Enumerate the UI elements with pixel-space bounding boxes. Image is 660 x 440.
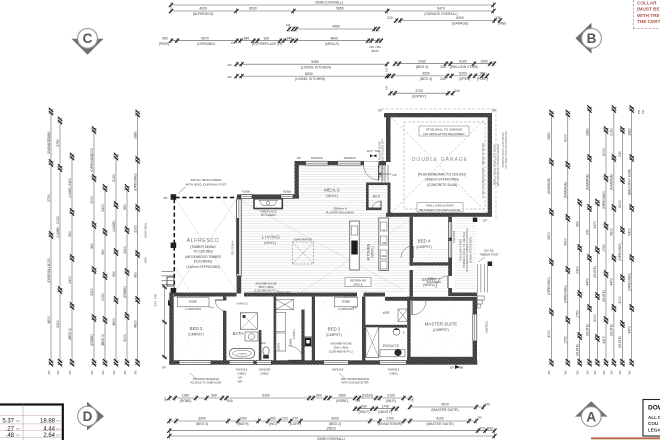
svg-text:2190: 2190 <box>387 394 395 398</box>
wall bed2-ensuite <box>362 297 365 361</box>
svg-text:DOUBLE GARAGE: DOUBLE GARAGE <box>412 157 468 163</box>
entry door opening and swing <box>448 276 452 288</box>
bed4-entry east wall <box>448 217 452 293</box>
svg-text:4800: 4800 <box>112 318 116 326</box>
svg-text:(BED 3): (BED 3) <box>101 334 105 346</box>
window SW1015 <box>229 361 254 365</box>
svg-text:5390: 5390 <box>262 394 270 398</box>
svg-text:LINEN: LINEN <box>277 343 281 351</box>
kitchen island bench <box>350 221 359 270</box>
svg-text:PLASTER BULKHEAD: PLASTER BULKHEAD <box>326 210 355 214</box>
svg-text:2-1/2DOORS: 2-1/2DOORS <box>338 307 354 311</box>
svg-text:230: 230 <box>495 16 501 20</box>
svg-text:THE CERT: THE CERT <box>637 19 660 24</box>
svg-text:(VINYL): (VINYL) <box>264 241 276 245</box>
svg-text:(ENTRY): (ENTRY) <box>412 94 426 98</box>
svg-text:(MASTER SUITE): (MASTER SUITE) <box>431 408 458 412</box>
dry door swing arc <box>289 346 304 361</box>
svg-text:4020: 4020 <box>199 7 207 11</box>
bath door opening <box>223 300 227 311</box>
svg-text:350h x 450w: 350h x 450w <box>333 346 348 350</box>
svg-text:COLLAR: COLLAR <box>637 1 657 6</box>
bottom dim row small segs <box>167 394 412 403</box>
robe bed3 box <box>178 297 210 307</box>
svg-text:SHOWER NICHE: SHOWER NICHE <box>255 281 276 285</box>
svg-text:8530: 8530 <box>249 7 257 11</box>
meals top wall <box>295 161 387 165</box>
section marker C <box>72 28 104 54</box>
wip west wall <box>366 183 369 211</box>
svg-text:960: 960 <box>68 231 72 237</box>
svg-text:240: 240 <box>618 151 622 157</box>
timber post NE <box>473 218 478 223</box>
svg-text:9130: 9130 <box>47 258 51 266</box>
svg-text:(142mm STEPDOWN): (142mm STEPDOWN) <box>186 265 219 269</box>
wall insulation note box <box>417 203 463 213</box>
svg-text:960: 960 <box>211 394 217 398</box>
svg-text:2190: 2190 <box>101 293 105 301</box>
svg-text:(1200 ABOVE F.F.L): (1200 ABOVE F.F.L) <box>254 289 278 293</box>
wall dry-bed2 <box>312 297 315 361</box>
window SW1815 left <box>306 161 329 165</box>
garage door leaf <box>378 165 380 181</box>
garage roof overhang dashed line <box>381 109 496 220</box>
svg-text:4470: 4470 <box>602 336 606 344</box>
door swing meals <box>364 165 379 180</box>
porch south wall <box>448 293 477 297</box>
svg-text:240: 240 <box>231 41 236 45</box>
svg-text:900: 900 <box>270 417 276 421</box>
master north wall <box>385 297 477 301</box>
svg-text:(OPENING): (OPENING) <box>90 154 94 172</box>
svg-text:240: 240 <box>134 370 137 375</box>
svg-text:(ROBE): (ROBE) <box>180 399 192 403</box>
svg-text:240: 240 <box>164 397 168 402</box>
svg-text:4570: 4570 <box>441 403 449 407</box>
svg-text:A/W1821: A/W1821 <box>485 321 489 334</box>
svg-text:960: 960 <box>112 271 116 277</box>
svg-text:(WC): (WC) <box>269 422 277 426</box>
svg-text:(GARAGE): (GARAGE) <box>47 138 51 155</box>
porch steps east <box>478 264 488 293</box>
svg-text:6000: 6000 <box>618 200 622 208</box>
svg-text:845: 845 <box>244 36 250 40</box>
svg-text:6470: 6470 <box>437 7 445 11</box>
bed2 door swing arc <box>345 296 357 308</box>
svg-text:BATH: BATH <box>233 331 244 336</box>
kitchen cooktop <box>351 241 357 255</box>
svg-text:240: 240 <box>386 85 389 90</box>
svg-text:(408mm STEPDOWN): (408mm STEPDOWN) <box>425 178 458 182</box>
svg-text:4470: 4470 <box>628 326 632 334</box>
svg-text:ALIGN WALL: ALIGN WALL <box>144 222 148 238</box>
svg-text:(BED 4): (BED 4) <box>416 65 428 69</box>
svg-text:1950: 1950 <box>182 394 190 398</box>
svg-text:(OPENING): (OPENING) <box>564 285 568 303</box>
svg-text:5130: 5130 <box>56 216 60 224</box>
garage top wall <box>384 113 492 117</box>
svg-text:ROBE: ROBE <box>342 300 350 304</box>
wip east wall <box>388 183 391 217</box>
svg-text:240: 240 <box>484 403 490 407</box>
svg-text:6000: 6000 <box>602 148 606 156</box>
wall ensuite-master <box>407 297 410 361</box>
right dim column 5 <box>593 199 600 375</box>
svg-text:(SUITE): (SUITE) <box>576 344 580 356</box>
svg-text:(BED 3): (BED 3) <box>68 328 72 340</box>
svg-text:4840: 4840 <box>330 36 338 40</box>
section marker B <box>576 23 602 54</box>
robe bed2 box <box>335 297 358 307</box>
svg-text:240: 240 <box>386 67 389 72</box>
top dim row segments <box>169 7 496 16</box>
svg-text:240: 240 <box>48 370 51 375</box>
svg-text:DP: DP <box>378 109 382 113</box>
svg-text:3000: 3000 <box>198 417 206 421</box>
svg-text:(POST): (POST) <box>477 77 489 81</box>
svg-text:90: 90 <box>356 399 360 403</box>
living north wall <box>237 194 299 198</box>
porch skillion verandah floor lines <box>455 216 476 289</box>
carpet diagonals bedrooms <box>132 219 544 360</box>
red dashed border <box>634 0 660 29</box>
svg-text:1750: 1750 <box>564 336 568 344</box>
svg-text:240 x 450: 240 x 450 <box>369 45 381 49</box>
svg-text:210: 210 <box>387 16 393 20</box>
kitchen appliances boxes <box>380 222 387 269</box>
left dim column 4 <box>90 126 97 374</box>
bath door swing <box>215 300 226 311</box>
wc toilet <box>263 347 269 359</box>
svg-text:2880: 2880 <box>585 128 589 136</box>
svg-text:2700: 2700 <box>386 417 394 421</box>
svg-text:(SHLF): (SHLF) <box>359 410 370 414</box>
svg-text:DP: DP <box>162 365 166 369</box>
svg-text:3470: 3470 <box>593 221 597 229</box>
svg-text:UP: UP <box>238 376 242 380</box>
svg-text:SW1815: SW1815 <box>344 156 356 160</box>
svg-text:2880: 2880 <box>547 132 551 140</box>
svg-text:240: 240 <box>57 370 60 375</box>
svg-text:3000: 3000 <box>123 334 127 342</box>
svg-text:(LANE): (LANE) <box>56 226 60 237</box>
svg-text:D: D <box>83 409 93 424</box>
svg-text:240: 240 <box>102 370 105 375</box>
svg-text:240: 240 <box>565 370 568 375</box>
svg-text:5800: 5800 <box>610 228 614 236</box>
dry trough <box>305 338 311 347</box>
top dim row overall <box>169 1 496 8</box>
svg-text:240: 240 <box>113 370 116 375</box>
svg-text:ENSUITE: ENSUITE <box>383 344 400 348</box>
svg-text:(LANE): (LANE) <box>68 186 72 197</box>
svg-text:TIMBER POST: TIMBER POST <box>479 253 499 257</box>
left dim column 8 <box>133 110 140 375</box>
svg-text:4000: 4000 <box>618 296 622 304</box>
svg-text:SW1218: SW1218 <box>332 367 344 371</box>
svg-text:3000: 3000 <box>90 196 94 204</box>
svg-text:4800: 4800 <box>47 316 51 324</box>
top dim living kitchen 9280 <box>234 60 389 69</box>
svg-text:2790: 2790 <box>56 139 60 147</box>
svg-text:P SECTION BEAM OVER - REFER TO: P SECTION BEAM OVER - REFER TO DETAIL <box>481 142 485 198</box>
right dim column 3 <box>576 199 583 375</box>
garage bottom wall <box>386 213 492 217</box>
svg-text:(MUST BE: (MUST BE <box>637 7 660 12</box>
bed4 south wall <box>413 262 449 265</box>
top dim garage <box>387 16 506 25</box>
wall below sliding door <box>237 276 242 294</box>
timber post E <box>488 262 493 267</box>
svg-text:(CARPET): (CARPET) <box>433 328 449 332</box>
steps from garage to house <box>382 165 388 182</box>
garage left wall <box>386 113 391 162</box>
svg-text:ALL D: ALL D <box>648 415 660 420</box>
linen shelves cupboard <box>275 313 286 352</box>
top dim opening row <box>159 36 383 45</box>
title block top edge line bottom right <box>591 437 660 439</box>
svg-text:W.I.P: W.I.P <box>373 195 381 199</box>
hall north wall west <box>174 293 237 297</box>
right dim column 9 <box>628 105 635 374</box>
wall living-entry lower <box>410 270 413 297</box>
wall wir-ensuite horizontal <box>365 325 407 328</box>
svg-text:BETWEEN HOUSE/GARAGE: BETWEEN HOUSE/GARAGE <box>419 208 460 212</box>
svg-text:240: 240 <box>642 109 645 114</box>
svg-text:2000: 2000 <box>133 225 137 233</box>
right dim column 4 <box>585 105 592 374</box>
svg-text:A: A <box>586 409 596 424</box>
svg-text:C: C <box>83 31 93 46</box>
wip south wall <box>366 208 381 211</box>
meals west wall <box>295 161 299 199</box>
wall bath-wc <box>259 330 262 361</box>
svg-text:(OPENING): (OPENING) <box>197 42 215 46</box>
svg-text:9100: 9100 <box>459 59 467 63</box>
svg-text:O: O <box>383 228 385 232</box>
svg-text:ALFRESCO: ALFRESCO <box>187 238 220 244</box>
svg-text:UP: UP <box>392 173 396 177</box>
svg-text:5850: 5850 <box>336 7 344 11</box>
svg-text:(CARPET): (CARPET) <box>326 333 342 337</box>
red note text top right <box>637 1 660 24</box>
svg-text:960: 960 <box>316 394 322 398</box>
ensuite basin <box>394 349 401 356</box>
ext tap symbol top <box>370 154 377 157</box>
svg-text:(BALCONY GAR): (BALCONY GAR) <box>628 169 632 196</box>
svg-text:(LIVING; KITCHEN): (LIVING; KITCHEN) <box>301 65 331 69</box>
svg-text:BY CLIENT: BY CLIENT <box>261 213 276 217</box>
wall living-bed4 <box>410 217 413 266</box>
svg-text:SD 2136-4: SD 2136-4 <box>230 240 234 255</box>
entry door swing <box>436 276 448 288</box>
svg-text:LEGA: LEGA <box>648 427 660 432</box>
svg-text:DP: DP <box>492 109 496 113</box>
svg-text:960: 960 <box>123 204 127 210</box>
svg-text:1740: 1740 <box>381 404 389 408</box>
wall wc-linen <box>274 297 277 361</box>
svg-text:240: 240 <box>477 415 482 419</box>
svg-text:A/W1818: A/W1818 <box>452 231 456 244</box>
svg-text:4000: 4000 <box>547 330 551 338</box>
house bottom wall <box>169 360 477 364</box>
entry vinyl floor lines <box>413 250 448 292</box>
window SW1815 right <box>338 161 362 165</box>
west wall outside dim line <box>164 285 166 359</box>
svg-text:WC: WC <box>261 341 267 345</box>
svg-text:240: 240 <box>227 75 232 79</box>
door opening garage to meals <box>364 161 379 165</box>
svg-text:3000: 3000 <box>331 417 339 421</box>
wall bed3-bath <box>223 297 226 361</box>
svg-text:240: 240 <box>594 370 597 375</box>
svg-text:(BED 3): (BED 3) <box>196 422 208 426</box>
svg-text:240: 240 <box>548 370 551 375</box>
svg-text:(OBS): (OBS) <box>389 372 397 376</box>
svg-text:(SUITE): (SUITE) <box>585 324 589 336</box>
window SW1218 <box>324 361 349 365</box>
hall north wall mid <box>244 293 357 297</box>
left dim column 2 <box>56 117 63 375</box>
svg-text:(1#BATH): (1#BATH) <box>237 352 247 355</box>
svg-text:8630: 8630 <box>305 72 313 76</box>
svg-text:350h x 450w: 350h x 450w <box>258 285 273 289</box>
svg-text:240: 240 <box>585 229 589 235</box>
svg-text:5800: 5800 <box>547 232 551 240</box>
svg-text:WITH TRE: WITH TRE <box>637 13 660 18</box>
svg-text:(SUITE): (SUITE) <box>610 324 614 336</box>
svg-text:BED 4: BED 4 <box>418 239 431 244</box>
right dim column 7 <box>610 105 617 374</box>
living meals kitchen vinyl floorboard lines <box>237 164 409 294</box>
svg-text:540: 540 <box>227 399 233 403</box>
svg-text:(OBS): (OBS) <box>260 372 268 376</box>
svg-text:5400: 5400 <box>564 238 568 246</box>
svg-text:(VANITY): (VANITY) <box>378 410 392 414</box>
svg-text:(OPENING): (OPENING) <box>628 273 632 291</box>
svg-text:(SKILLION V'OAH): (SKILLION V'OAH) <box>450 65 479 69</box>
svg-text:2-1/2DOORS: 2-1/2DOORS <box>185 307 201 311</box>
alfresco timber deck diagonal lines <box>130 199 282 291</box>
svg-text:.27: .27 <box>6 426 15 432</box>
ext tap west <box>168 299 171 306</box>
svg-text:2451A 1SG: 2451A 1SG <box>277 290 290 294</box>
section marker D <box>78 402 104 431</box>
svg-text:2430: 2430 <box>418 59 426 63</box>
left dim column 7 <box>123 184 130 374</box>
svg-text:MEALS: MEALS <box>324 188 340 193</box>
svg-text:DP: DP <box>164 196 168 200</box>
svg-text:2400: 2400 <box>101 204 105 212</box>
bottom dim room widths <box>167 417 478 426</box>
svg-text:BED 3: BED 3 <box>190 326 203 331</box>
svg-text:5200: 5200 <box>459 72 467 76</box>
svg-text:3720: 3720 <box>415 89 423 93</box>
post leader <box>478 257 485 262</box>
alfresco dashed perimeter top <box>176 197 238 199</box>
window AW1821 <box>473 314 477 341</box>
svg-text:RETURN AIR: RETURN AIR <box>350 278 366 282</box>
svg-text:1750: 1750 <box>602 244 606 252</box>
left dim column 3 <box>68 153 75 375</box>
svg-text:EXT. TAP: EXT. TAP <box>367 149 380 153</box>
svg-text:(OPENING): (OPENING) <box>133 173 137 191</box>
bottom dim 19610 <box>167 426 496 433</box>
master east wall <box>473 297 477 361</box>
top dim meals width <box>294 25 380 32</box>
svg-text:18.88: 18.88 <box>40 418 56 424</box>
svg-text:240: 240 <box>227 63 232 67</box>
hall north wall east <box>364 293 386 297</box>
bottom dim master suite <box>408 403 490 412</box>
left dim column 6 <box>112 153 119 375</box>
svg-text:(ROBE): (ROBE) <box>336 399 348 403</box>
wip door swing arc <box>372 201 381 210</box>
svg-text:2400: 2400 <box>56 320 60 328</box>
svg-text:4470: 4470 <box>610 278 614 286</box>
svg-text:(GARAGE OVERALL): (GARAGE OVERALL) <box>424 12 457 16</box>
svg-text:(LDRY): (LDRY) <box>290 422 301 426</box>
svg-text:WIR: WIR <box>383 311 390 315</box>
svg-text:DP: DP <box>297 156 301 160</box>
ensuite wc <box>393 328 400 335</box>
svg-text:300: 300 <box>480 72 486 76</box>
svg-text:9670: 9670 <box>201 36 209 40</box>
garage right wall <box>488 113 492 217</box>
svg-text:[2x520]: [2x520] <box>362 394 373 398</box>
svg-text:20090 (OVERALL): 20090 (OVERALL) <box>315 1 343 5</box>
svg-text:2000: 2000 <box>239 417 247 421</box>
svg-text:.48: .48 <box>6 433 15 439</box>
svg-text:6000: 6000 <box>593 314 597 322</box>
svg-text:2580mm A: 2580mm A <box>428 277 441 281</box>
kitchen sink <box>351 226 357 235</box>
bath tub <box>230 349 255 359</box>
alfresco brick pier mid west <box>171 243 177 249</box>
porch steps south <box>477 296 484 308</box>
svg-text:6000: 6000 <box>564 134 568 142</box>
svg-text:(VINYL): (VINYL) <box>236 302 247 306</box>
svg-text:TO CEILING): TO CEILING) <box>193 250 213 254</box>
svg-text:(GARAGE): (GARAGE) <box>452 22 469 26</box>
svg-text:960: 960 <box>576 221 580 227</box>
linen xbox <box>276 299 294 309</box>
svg-text:EVAPORATIVE: EVAPORATIVE <box>294 238 312 242</box>
window bed3 sill <box>179 361 211 365</box>
downpipe legend box bottom right <box>643 400 660 437</box>
brick pier leader <box>178 187 186 194</box>
svg-text:(BATH): (BATH) <box>237 422 248 426</box>
window F1804 left <box>241 195 252 199</box>
svg-text:LAT 70mm 2 TRIO STOPPING MIN: LAT 70mm 2 TRIO STOPPING MIN <box>505 131 508 169</box>
svg-text:X: X <box>402 331 404 335</box>
sliding door SD2136-4 <box>237 199 242 276</box>
svg-text:(OPENING): (OPENING) <box>547 277 551 295</box>
bed3 door swing arc <box>202 296 214 308</box>
svg-text:3530: 3530 <box>422 72 430 76</box>
svg-text:2.64: 2.64 <box>43 433 55 439</box>
svg-text:(LANE): (LANE) <box>112 220 116 231</box>
master door swing arc <box>412 301 426 315</box>
area schedule table bottom left <box>0 405 63 440</box>
svg-text:(VINYL): (VINYL) <box>326 194 338 198</box>
svg-text:(LIVING; KITCHEN): (LIVING; KITCHEN) <box>295 77 325 81</box>
svg-text:770: 770 <box>293 417 299 421</box>
svg-text:(ENSUITE/WIR): (ENSUITE/WIR) <box>378 422 403 426</box>
svg-text:(CARPET): (CARPET) <box>416 245 432 249</box>
svg-text:960: 960 <box>101 249 105 255</box>
svg-text:(SUITE): (SUITE) <box>602 290 606 302</box>
